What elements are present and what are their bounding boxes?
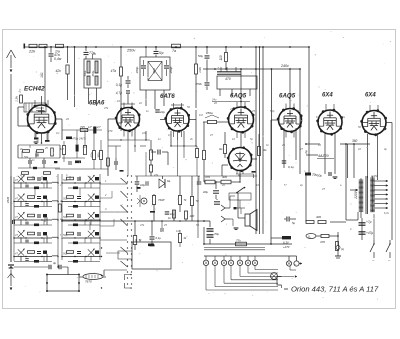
svg-text:4µ: 4µ [53,261,57,265]
svg-text:50µ: 50µ [317,174,322,178]
svg-text:470µ 24(?): 470µ 24(?) [72,137,86,141]
svg-text:410a: 410a [91,152,94,158]
svg-text:360: 360 [352,139,358,143]
svg-text:0,4w: 0,4w [54,57,62,61]
svg-text:6,3: 6,3 [316,115,320,119]
svg-text:110: 110 [219,55,223,60]
svg-text:20: 20 [221,183,225,187]
svg-text:4µ: 4µ [384,147,387,151]
svg-text:10µ: 10µ [140,183,145,187]
svg-text:470: 470 [320,240,325,244]
svg-text:400: 400 [222,175,227,179]
svg-text:5/µ: 5/µ [159,51,164,55]
svg-text:24v: 24v [211,98,217,102]
svg-text:40µ: 40µ [203,190,208,194]
svg-text:6AQ5: 6AQ5 [230,93,247,100]
svg-text:0,5: 0,5 [168,133,172,137]
svg-text:200p: 200p [169,66,173,74]
svg-text:50p: 50p [63,215,68,219]
svg-text:250v: 250v [126,49,136,53]
svg-text:250v: 250v [194,82,202,86]
svg-text:47k: 47k [104,106,109,110]
svg-text:42v: 42v [56,69,62,73]
svg-text:464a: 464a [153,68,156,74]
svg-text:50p: 50p [63,197,68,201]
svg-text:391b: 391b [98,152,101,158]
svg-text:22k: 22k [141,131,147,135]
svg-text:684a: 684a [91,70,95,76]
svg-text:161: 161 [40,72,44,78]
svg-text:740P: 740P [158,198,165,202]
svg-text:0,1µ: 0,1µ [288,165,294,169]
svg-text:400: 400 [316,215,321,219]
svg-text:+7µ: +7µ [366,220,372,224]
svg-text:1/7: 1/7 [88,125,92,129]
svg-text:200p: 200p [135,66,139,74]
svg-text:5µ: 5µ [292,221,296,225]
svg-text:47a: 47a [111,69,117,73]
svg-text:1/2k: 1/2k [198,67,202,73]
svg-text:50p: 50p [63,233,68,237]
svg-text:LL: LL [308,235,312,239]
svg-text:22: 22 [138,101,142,105]
svg-text:500a: 500a [83,70,87,76]
svg-text:2µ: 2µ [299,183,303,187]
svg-text:6X4: 6X4 [322,93,333,99]
svg-text:6AT6: 6AT6 [160,93,175,100]
svg-text:725: 725 [80,125,85,129]
svg-text:414: 414 [83,146,88,149]
svg-text:22µ: 22µ [159,110,165,114]
svg-text:4,7: 4,7 [97,125,101,129]
svg-text:(s): (s) [341,247,344,251]
svg-text:70µ: 70µ [214,232,219,236]
svg-text:47k: 47k [154,173,159,177]
svg-text:25: 25 [163,223,167,227]
svg-text:7a: 7a [172,49,176,53]
svg-text:25: 25 [44,147,48,150]
svg-text:6BA6: 6BA6 [89,101,105,107]
svg-text:220V: 220V [354,190,358,199]
svg-text:470: 470 [108,129,113,133]
svg-text:6AQ5: 6AQ5 [279,93,296,100]
svg-text:470: 470 [225,77,231,81]
svg-text:6X4: 6X4 [365,93,376,99]
svg-text:6a: 6a [167,179,171,183]
svg-text:77v: 77v [236,239,241,243]
svg-text:240v: 240v [280,64,289,68]
svg-text:50p: 50p [270,109,275,113]
svg-text:50p: 50p [63,178,68,182]
svg-text:+270: +270 [283,245,290,249]
svg-text:0,1: 0,1 [56,131,60,135]
svg-text:6,3v: 6,3v [384,211,390,215]
svg-text:70: 70 [196,199,200,203]
svg-text:50µ: 50µ [198,54,203,58]
svg-text:Orion 443, 711 A és A 117: Orion 443, 711 A és A 117 [291,285,379,294]
svg-text:7670: 7670 [85,280,92,284]
svg-text:4,7µ: 4,7µ [116,91,122,95]
svg-text:~: ~ [294,262,296,266]
svg-text:4444: 4444 [6,196,10,203]
svg-text:ECH42: ECH42 [24,86,45,93]
svg-text:0,1µ: 0,1µ [156,236,162,240]
svg-text:25: 25 [251,109,255,113]
svg-text:22: 22 [357,147,361,151]
svg-text:2x350: 2x350 [370,174,379,178]
svg-text:2a: 2a [341,115,345,119]
svg-text:47k: 47k [140,223,145,227]
svg-text:20: 20 [213,101,217,105]
svg-text:25: 25 [281,143,285,147]
svg-text:1,5k: 1,5k [15,96,19,102]
svg-text:0,1µ: 0,1µ [116,83,122,87]
svg-text:2µ: 2µ [304,150,308,155]
svg-text:470: 470 [205,175,210,179]
svg-text:77a: 77a [89,51,95,55]
svg-text:+47µ: +47µ [366,231,373,235]
svg-text:4AZ20: 4AZ20 [318,154,329,158]
svg-text:20: 20 [65,117,69,121]
svg-text:50p: 50p [63,252,68,256]
svg-text:22k: 22k [28,50,36,54]
svg-text:50k: 50k [24,155,29,159]
svg-text:1/a: 1/a [55,50,60,54]
